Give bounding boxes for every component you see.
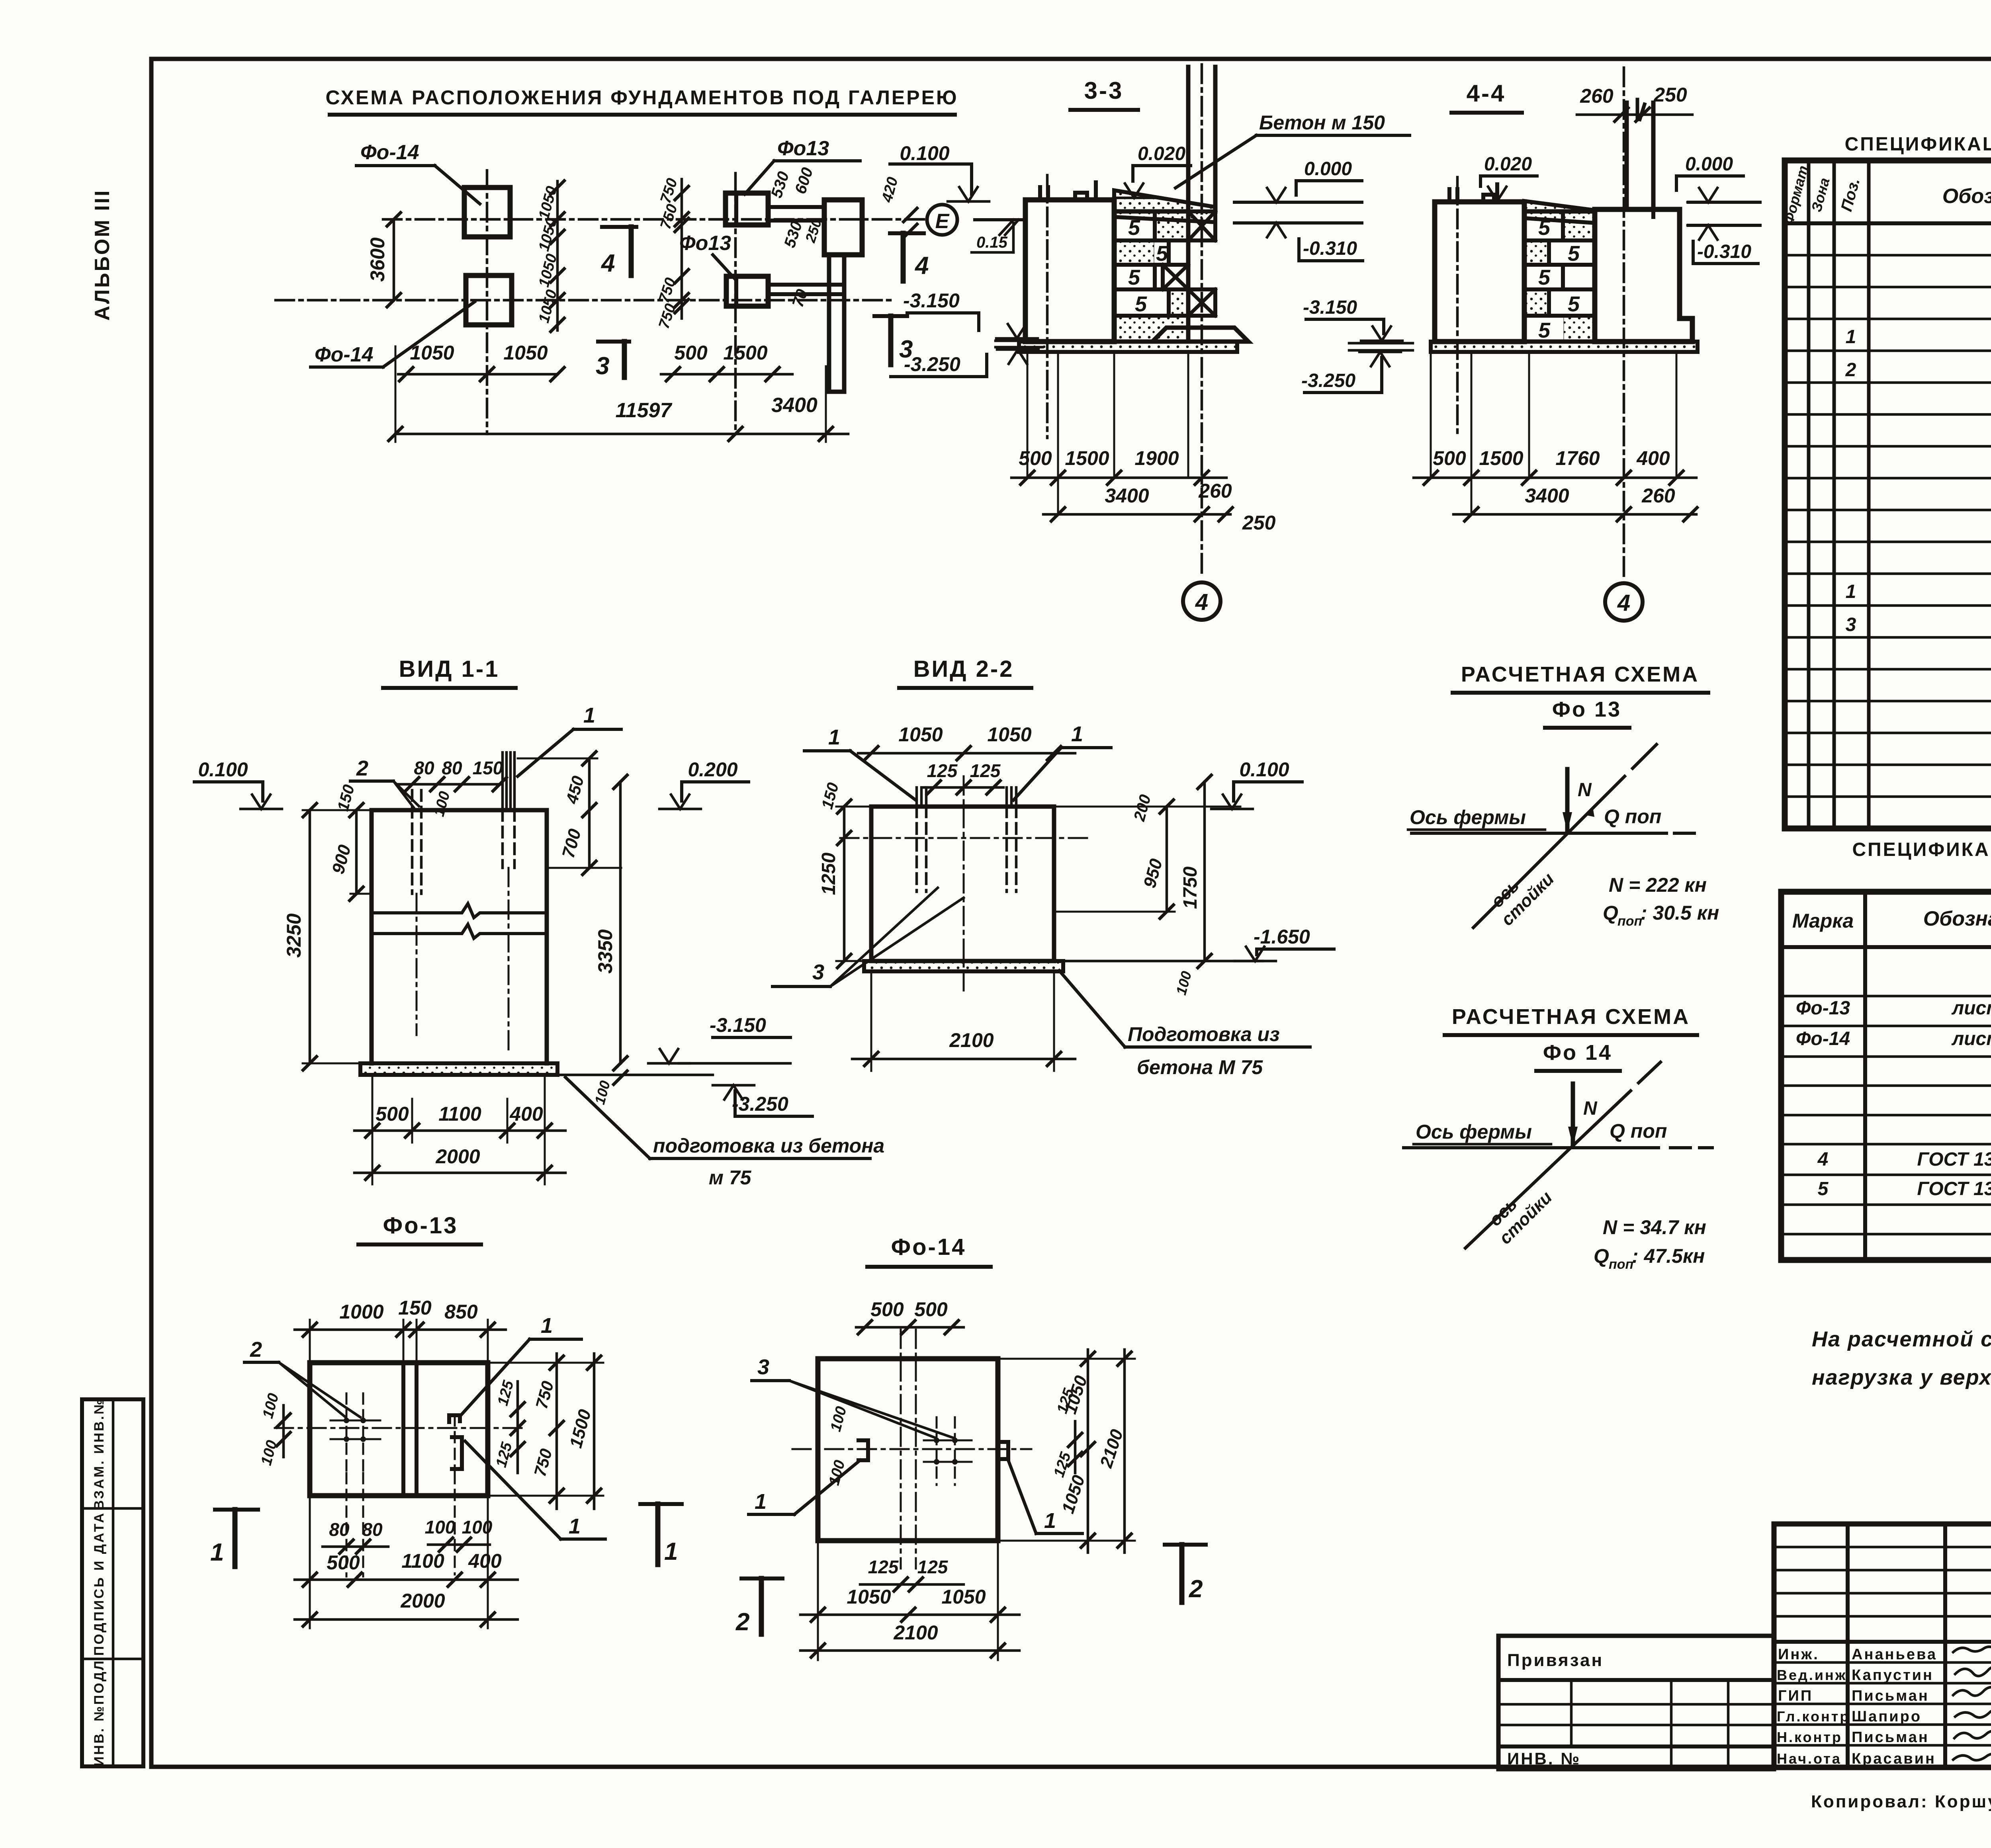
anchor cluster center bbox=[934, 1438, 939, 1443]
wedge 4-4 bbox=[1524, 201, 1595, 223]
dim line 1050x4 right of squares bbox=[556, 181, 559, 330]
dim 3600 vertical bbox=[393, 219, 395, 300]
extension lines below 3-3 bbox=[1027, 352, 1029, 478]
svg-text:-3.250: -3.250 bbox=[904, 353, 960, 375]
svg-text:1900: 1900 bbox=[1134, 447, 1179, 469]
header texts bbox=[1780, 164, 1811, 226]
ground slab 3-3 bbox=[1019, 342, 1237, 352]
svg-text:5: 5 bbox=[1538, 318, 1551, 342]
svg-text:АЛЬБОМ III: АЛЬБОМ III bbox=[91, 189, 114, 321]
plan: foundation square Fo-14 lower bbox=[466, 275, 512, 325]
left stamp column (inv no / podpis / vzam) bbox=[82, 1398, 143, 1766]
svg-text:5: 5 bbox=[1156, 242, 1168, 266]
plan: Fo13 pad upper bbox=[726, 193, 768, 225]
svg-text:лист 43: лист 43 bbox=[1951, 998, 1991, 1019]
bottom dims 500 1100 400 2000 bbox=[372, 1078, 374, 1184]
svg-text:2: 2 bbox=[1845, 359, 1856, 381]
row lines bbox=[1785, 254, 1991, 257]
circled axis 4 of section 4-4 bbox=[1605, 583, 1643, 621]
svg-text:Копировал: Коршунова: Копировал: Коршунова bbox=[1811, 1792, 1991, 1811]
svg-text:2100: 2100 bbox=[949, 1029, 994, 1051]
svg-text:0.000: 0.000 bbox=[1304, 158, 1352, 180]
plan: foundation square Fo-14 upper bbox=[464, 188, 510, 237]
base slab bbox=[360, 1063, 557, 1075]
svg-text:-3.150: -3.150 bbox=[903, 289, 960, 312]
svg-text:4: 4 bbox=[1817, 1149, 1829, 1170]
svg-text:1750: 1750 bbox=[1180, 866, 1201, 909]
svg-text:1050: 1050 bbox=[847, 1586, 891, 1608]
svg-text:Н.контр: Н.контр bbox=[1777, 1729, 1842, 1745]
section mark 1 left bbox=[215, 1508, 258, 1512]
svg-text:СПЕЦИФИКАЦИЯ МОНОЛИТНЫХ ФУНДАМ: СПЕЦИФИКАЦИЯ МОНОЛИТНЫХ ФУНДАМЕНТОВ Фо-1… bbox=[1845, 134, 1991, 155]
gallery column above 3-3 bbox=[1186, 67, 1191, 211]
bracket item right (pos 1) bbox=[449, 1415, 460, 1422]
pier body 3-3 bbox=[1025, 200, 1114, 342]
extension lines below 4-4 bbox=[1430, 352, 1432, 478]
section mark 2 left bbox=[741, 1576, 782, 1580]
svg-text:1: 1 bbox=[828, 725, 840, 749]
section mark 4 mid bbox=[602, 225, 636, 229]
left dims 150 900 3250 bbox=[334, 783, 358, 813]
svg-text:-0.310: -0.310 bbox=[1697, 241, 1751, 262]
right dims 125 125 1050 1050 2100 bbox=[1054, 1386, 1078, 1416]
svg-text:0.020: 0.020 bbox=[1138, 143, 1185, 164]
svg-text:2000: 2000 bbox=[400, 1590, 445, 1612]
strut axis diagonal bbox=[1465, 1091, 1631, 1248]
svg-text:5: 5 bbox=[1128, 216, 1140, 240]
svg-text:ГОСТ 13579 - 78: ГОСТ 13579 - 78 bbox=[1917, 1178, 1991, 1199]
svg-text:Фо-13: Фо-13 bbox=[383, 1213, 458, 1239]
svg-text:500: 500 bbox=[870, 1298, 904, 1321]
svg-text:-3.250: -3.250 bbox=[1301, 370, 1355, 391]
svg-text:РАСЧЕТНАЯ СХЕМА: РАСЧЕТНАЯ СХЕМА bbox=[1461, 662, 1699, 686]
svg-text:125: 125 bbox=[868, 1557, 899, 1577]
section mark 3 mid bbox=[598, 340, 629, 344]
svg-text:Е: Е bbox=[935, 210, 950, 233]
upper narrow rows bbox=[1774, 1546, 1991, 1549]
double tie beams to column E bbox=[768, 205, 824, 209]
svg-text:Q поп: Q поп bbox=[1604, 805, 1661, 828]
svg-text:80: 80 bbox=[362, 1519, 383, 1540]
left dims 100 100 bbox=[827, 1405, 850, 1433]
vertical column lines bbox=[1807, 160, 1811, 828]
circled axis 4 of section 3-3 bbox=[1183, 582, 1220, 620]
outer box of small grid bbox=[1774, 1524, 1991, 1768]
svg-text:500: 500 bbox=[1433, 447, 1466, 469]
svg-text:ВИД 2-2: ВИД 2-2 bbox=[913, 656, 1014, 682]
svg-text:ПОДПИСЬ И ДАТА: ПОДПИСЬ И ДАТА bbox=[92, 1512, 107, 1656]
plan centerline horizontal upper bbox=[383, 218, 925, 221]
svg-text:3: 3 bbox=[812, 960, 824, 984]
svg-text:2: 2 bbox=[250, 1338, 262, 1362]
svg-text:Подготовка из: Подготовка из bbox=[1128, 1023, 1280, 1045]
svg-text:5: 5 bbox=[1135, 292, 1147, 316]
center axes bbox=[963, 776, 965, 995]
section mark 2 right bbox=[1165, 1543, 1206, 1547]
svg-text:ВИД 1-1: ВИД 1-1 bbox=[399, 656, 500, 682]
svg-text:5: 5 bbox=[1818, 1178, 1829, 1199]
embedded item strip top (item 1) bbox=[503, 752, 514, 810]
svg-text:Фо 13: Фо 13 bbox=[1552, 697, 1621, 721]
svg-text:Письман: Письман bbox=[1852, 1688, 1929, 1704]
truss axis line bbox=[1412, 832, 1666, 835]
force N arrow bbox=[1571, 1084, 1575, 1145]
plan centerline horizontal lower bbox=[276, 299, 892, 302]
svg-text:4-4: 4-4 bbox=[1467, 80, 1506, 107]
svg-text:260: 260 bbox=[1580, 85, 1614, 107]
svg-text:4: 4 bbox=[600, 250, 615, 277]
svg-text:Q: Q bbox=[1594, 1245, 1609, 1267]
svg-text:500: 500 bbox=[914, 1298, 948, 1321]
body rect bbox=[818, 1359, 998, 1541]
left dims 100 100 bbox=[260, 1391, 282, 1420]
svg-text:СПЕЦИФИКАЦИЯ К СХЕМЕ РАСПОЛОЖЕ: СПЕЦИФИКАЦИЯ К СХЕМЕ РАСПОЛОЖЕНИЯ ФУНДАМ… bbox=[1852, 839, 1991, 860]
svg-text:Ось фермы: Ось фермы bbox=[1410, 806, 1526, 828]
force N arrow bbox=[1565, 769, 1570, 830]
privyazan box bbox=[1498, 1636, 1774, 1769]
svg-text:1: 1 bbox=[541, 1314, 553, 1338]
svg-text:0.000: 0.000 bbox=[1685, 154, 1733, 175]
svg-text:1: 1 bbox=[1071, 722, 1083, 746]
center axes bbox=[416, 894, 418, 1035]
svg-text:ИНВ. №ПОДЛ: ИНВ. №ПОДЛ bbox=[92, 1659, 107, 1766]
svg-text:нагрузка у верхнего обреза фун: нагрузка у верхнего обреза фундамента. bbox=[1812, 1365, 1991, 1389]
svg-text:Нач.ота: Нач.ота bbox=[1777, 1750, 1842, 1767]
svg-text:N = 34.7 кн: N = 34.7 кн bbox=[1603, 1216, 1706, 1239]
strut axis diagonal bbox=[1473, 776, 1625, 928]
svg-text:250: 250 bbox=[1653, 84, 1687, 106]
svg-text:Фо13: Фо13 bbox=[777, 137, 829, 160]
svg-text:Письман: Письман bbox=[1852, 1729, 1929, 1746]
svg-text:260: 260 bbox=[1641, 484, 1675, 507]
svg-text:5: 5 bbox=[1128, 266, 1140, 289]
svg-text:1: 1 bbox=[1044, 1509, 1056, 1533]
svg-text:400: 400 bbox=[468, 1550, 502, 1572]
right dims 200 950 1750 bbox=[1130, 793, 1154, 823]
svg-text:Вед.инж: Вед.инж bbox=[1777, 1667, 1847, 1683]
svg-text:3350: 3350 bbox=[594, 929, 616, 973]
svg-text:1050: 1050 bbox=[410, 342, 454, 364]
svg-text:80: 80 bbox=[442, 758, 462, 778]
right dims 125 125 750 750 1500 bbox=[516, 1381, 519, 1473]
svg-text:80: 80 bbox=[414, 758, 434, 778]
svg-text:0.15: 0.15 bbox=[976, 234, 1008, 251]
masonry blocks 4-4 bbox=[1524, 211, 1595, 342]
svg-text:0.100: 0.100 bbox=[198, 758, 248, 781]
svg-text:3400: 3400 bbox=[1105, 484, 1149, 507]
svg-text:-3.150: -3.150 bbox=[710, 1014, 766, 1036]
column body bbox=[372, 810, 547, 1063]
svg-text:N: N bbox=[1583, 1098, 1598, 1119]
svg-text:1100: 1100 bbox=[401, 1550, 444, 1572]
gallery column above 4-4 bbox=[1625, 103, 1629, 209]
svg-text:лист 43: лист 43 bbox=[1951, 1028, 1991, 1049]
header bbox=[1781, 945, 1991, 949]
svg-text:СХЕМА РАСПОЛОЖЕНИЯ ФУНДАМЕНТОВ: СХЕМА РАСПОЛОЖЕНИЯ ФУНДАМЕНТОВ ПОД ГАЛЕР… bbox=[325, 86, 958, 109]
svg-text:Фо 14: Фо 14 bbox=[1543, 1041, 1612, 1065]
svg-text:бетона М 75: бетона М 75 bbox=[1137, 1056, 1263, 1078]
svg-text:Фо-14: Фо-14 bbox=[360, 141, 419, 164]
plan: Fo13 pad lower bbox=[726, 276, 768, 306]
svg-text:1250: 1250 bbox=[818, 852, 839, 895]
svg-text:150: 150 bbox=[473, 758, 503, 778]
svg-text:3: 3 bbox=[596, 352, 609, 380]
svg-text:Красавин: Красавин bbox=[1852, 1750, 1936, 1767]
rotated 420 bbox=[878, 175, 901, 204]
section mark 3 right bbox=[874, 314, 907, 318]
embedded strips bbox=[917, 787, 926, 807]
svg-text:-1.650: -1.650 bbox=[1254, 926, 1310, 948]
horizontal centerline bbox=[275, 1427, 522, 1429]
svg-text:4: 4 bbox=[914, 252, 929, 279]
svg-text:0.020: 0.020 bbox=[1484, 154, 1532, 175]
rotated dims 530 600 right of Fo13 bbox=[768, 170, 792, 200]
svg-text:Фо13: Фо13 bbox=[679, 232, 731, 255]
svg-text:Гл.контр: Гл.контр bbox=[1777, 1708, 1850, 1725]
svg-text:1: 1 bbox=[583, 703, 595, 727]
svg-text:1: 1 bbox=[1846, 581, 1856, 602]
album III side label bbox=[91, 189, 114, 321]
svg-text:1500: 1500 bbox=[723, 342, 767, 364]
svg-text:5: 5 bbox=[1538, 216, 1551, 240]
svg-text:500: 500 bbox=[674, 342, 708, 364]
body rect bbox=[310, 1363, 488, 1496]
svg-text:Марка: Марка bbox=[1792, 910, 1854, 932]
svg-text:-3.150: -3.150 bbox=[1303, 297, 1357, 318]
svg-text:ВЗАМ. ИНВ.№: ВЗАМ. ИНВ.№ bbox=[92, 1398, 107, 1510]
plan centerline vertical Fo13 bbox=[734, 173, 737, 430]
svg-text:Привязан: Привязан bbox=[1507, 1651, 1604, 1670]
svg-text:: 30.5 кн: : 30.5 кн bbox=[1641, 902, 1719, 924]
svg-text:2: 2 bbox=[735, 1608, 749, 1636]
svg-text:N: N bbox=[1578, 779, 1592, 801]
svg-text:5: 5 bbox=[1568, 242, 1580, 266]
left dims 150 1250 bbox=[818, 781, 842, 811]
svg-text:3: 3 bbox=[757, 1355, 769, 1379]
footing trapezoid bbox=[1152, 328, 1248, 342]
signature rows bbox=[1774, 1661, 1991, 1664]
svg-text:260: 260 bbox=[1198, 480, 1232, 502]
svg-text:На расчетной схеме дана нормат: На расчетной схеме дана нормативная bbox=[1812, 1327, 1991, 1351]
svg-text:Фо-14: Фо-14 bbox=[1796, 1028, 1850, 1049]
svg-text:подготовка из бетона: подготовка из бетона bbox=[653, 1135, 884, 1157]
break symbol bbox=[372, 904, 547, 918]
svg-text:1: 1 bbox=[664, 1538, 678, 1565]
svg-text:ГИП: ГИП bbox=[1778, 1688, 1813, 1704]
svg-text:1: 1 bbox=[1846, 326, 1856, 348]
svg-text:ИНВ. №: ИНВ. № bbox=[1507, 1749, 1581, 1768]
slab 100 dim right bbox=[1173, 969, 1195, 997]
svg-text:850: 850 bbox=[444, 1301, 478, 1323]
svg-text:125: 125 bbox=[917, 1557, 949, 1577]
svg-text:Фо-13: Фо-13 bbox=[1796, 998, 1850, 1019]
svg-text:4: 4 bbox=[1195, 589, 1208, 615]
svg-text:Обозначение: Обозначение bbox=[1942, 185, 1991, 208]
svg-text:1500: 1500 bbox=[1065, 447, 1109, 469]
svg-text:2: 2 bbox=[1189, 1575, 1203, 1603]
block body bbox=[871, 807, 1054, 961]
svg-text:Фо-14: Фо-14 bbox=[315, 343, 374, 366]
svg-text:Инж.: Инж. bbox=[1778, 1646, 1819, 1663]
svg-text:3250: 3250 bbox=[283, 913, 305, 957]
svg-text:ГОСТ 13579 - 78: ГОСТ 13579 - 78 bbox=[1917, 1149, 1991, 1170]
svg-text:2100: 2100 bbox=[893, 1621, 938, 1644]
svg-text:Ананьева: Ананьева bbox=[1852, 1646, 1937, 1663]
svg-text:125: 125 bbox=[970, 760, 1001, 781]
base slab bbox=[864, 961, 1063, 971]
svg-text:250: 250 bbox=[1242, 512, 1276, 534]
svg-text:0.200: 0.200 bbox=[688, 758, 737, 781]
svg-text:1050: 1050 bbox=[898, 723, 943, 746]
slab 100 dim bbox=[591, 1079, 613, 1106]
pier centerline bbox=[1046, 175, 1049, 438]
svg-text:поп: поп bbox=[1609, 1257, 1634, 1272]
svg-text:N = 222 кн: N = 222 кн bbox=[1609, 874, 1707, 896]
svg-text:Q: Q bbox=[1603, 902, 1618, 924]
svg-text:Фо-14: Фо-14 bbox=[891, 1234, 966, 1260]
svg-text:150: 150 bbox=[398, 1297, 432, 1319]
svg-text:Ось фермы: Ось фермы bbox=[1416, 1121, 1532, 1143]
svg-text:5: 5 bbox=[1568, 292, 1580, 316]
svg-text:РАСЧЕТНАЯ СХЕМА: РАСЧЕТНАЯ СХЕМА bbox=[1452, 1005, 1690, 1029]
svg-text:3: 3 bbox=[1846, 614, 1856, 635]
svg-text:1000: 1000 bbox=[339, 1301, 383, 1323]
svg-text:500: 500 bbox=[327, 1551, 360, 1574]
svg-text:1: 1 bbox=[569, 1514, 581, 1538]
svg-text:3600: 3600 bbox=[366, 237, 389, 281]
svg-text:2: 2 bbox=[356, 756, 368, 780]
svg-text:1050: 1050 bbox=[503, 342, 548, 364]
svg-text:3-3: 3-3 bbox=[1084, 77, 1124, 104]
masonry blocks column 3-3 bbox=[1114, 211, 1188, 342]
Q arrow small bbox=[1587, 807, 1594, 817]
svg-text:3400: 3400 bbox=[771, 394, 818, 417]
svg-text:2000: 2000 bbox=[435, 1145, 480, 1168]
column axis 3-3 bbox=[1201, 64, 1203, 578]
svg-text:100: 100 bbox=[425, 1517, 456, 1537]
svg-text:1100: 1100 bbox=[438, 1103, 481, 1125]
bracket item left (pos 3/1) bbox=[859, 1440, 868, 1460]
rotated dims 750 750 left of Fo13 bbox=[681, 179, 683, 318]
svg-text:1760: 1760 bbox=[1555, 447, 1600, 469]
svg-text:: 47.5кн: : 47.5кн bbox=[1632, 1245, 1705, 1267]
svg-text:500: 500 bbox=[1019, 447, 1052, 469]
rows bbox=[1781, 995, 1991, 998]
svg-text:Q поп: Q поп bbox=[1610, 1120, 1667, 1142]
column E element bbox=[824, 200, 862, 255]
svg-text:1050: 1050 bbox=[941, 1586, 986, 1608]
inner vertical strip 150 bbox=[401, 1363, 405, 1496]
svg-text:поп: поп bbox=[1617, 914, 1643, 929]
svg-text:1050: 1050 bbox=[987, 723, 1031, 746]
pier body 4-4 bbox=[1435, 202, 1524, 342]
vertical axes dashed bbox=[900, 1330, 902, 1569]
signatures scribbles bbox=[1953, 1647, 1991, 1652]
plan centerline vertical through Fo-14 bbox=[486, 170, 489, 434]
svg-text:3400: 3400 bbox=[1525, 484, 1569, 507]
svg-text:5: 5 bbox=[1538, 266, 1551, 289]
section mark 1 right bbox=[640, 1502, 682, 1506]
truss axis line bbox=[1404, 1146, 1659, 1149]
columns bbox=[1863, 892, 1867, 1260]
svg-text:м 75: м 75 bbox=[709, 1166, 752, 1189]
node E circle bbox=[927, 205, 957, 235]
svg-text:-0.310: -0.310 bbox=[1303, 238, 1357, 259]
svg-text:4: 4 bbox=[1617, 590, 1630, 616]
right foundation block 4-4 bbox=[1595, 209, 1692, 342]
svg-text:400: 400 bbox=[509, 1103, 543, 1125]
section mark 4 right bbox=[890, 231, 924, 235]
embedded anchor dashed (item 2) bbox=[412, 790, 421, 894]
svg-text:400: 400 bbox=[1636, 447, 1670, 469]
header bottom bbox=[1785, 221, 1991, 225]
horizontal centerline bbox=[792, 1448, 1031, 1450]
svg-text:125: 125 bbox=[927, 760, 958, 781]
svg-text:Шапиро: Шапиро bbox=[1852, 1708, 1922, 1725]
ground slab 4-4 bbox=[1431, 342, 1698, 352]
svg-text:Бетон м 150: Бетон м 150 bbox=[1259, 111, 1385, 134]
svg-text:0.100: 0.100 bbox=[1239, 758, 1289, 781]
crossed blocks right bbox=[1188, 211, 1215, 240]
svg-text:Обозначение: Обозначение bbox=[1923, 907, 1991, 930]
svg-text:1500: 1500 bbox=[1479, 447, 1523, 469]
svg-text:1: 1 bbox=[210, 1539, 224, 1566]
anchor cluster left (pos 2) bbox=[346, 1393, 363, 1473]
bracket item right bbox=[1000, 1442, 1008, 1459]
concrete wedge bbox=[1114, 190, 1215, 222]
svg-text:11597: 11597 bbox=[616, 399, 673, 422]
svg-text:1: 1 bbox=[755, 1490, 767, 1514]
svg-text:Капустин: Капустин bbox=[1852, 1667, 1934, 1684]
svg-text:0.100: 0.100 bbox=[900, 142, 949, 164]
column axis 4-4 bbox=[1623, 68, 1625, 579]
svg-text:500: 500 bbox=[376, 1103, 409, 1125]
anchor pins on pier top bbox=[1038, 187, 1042, 200]
